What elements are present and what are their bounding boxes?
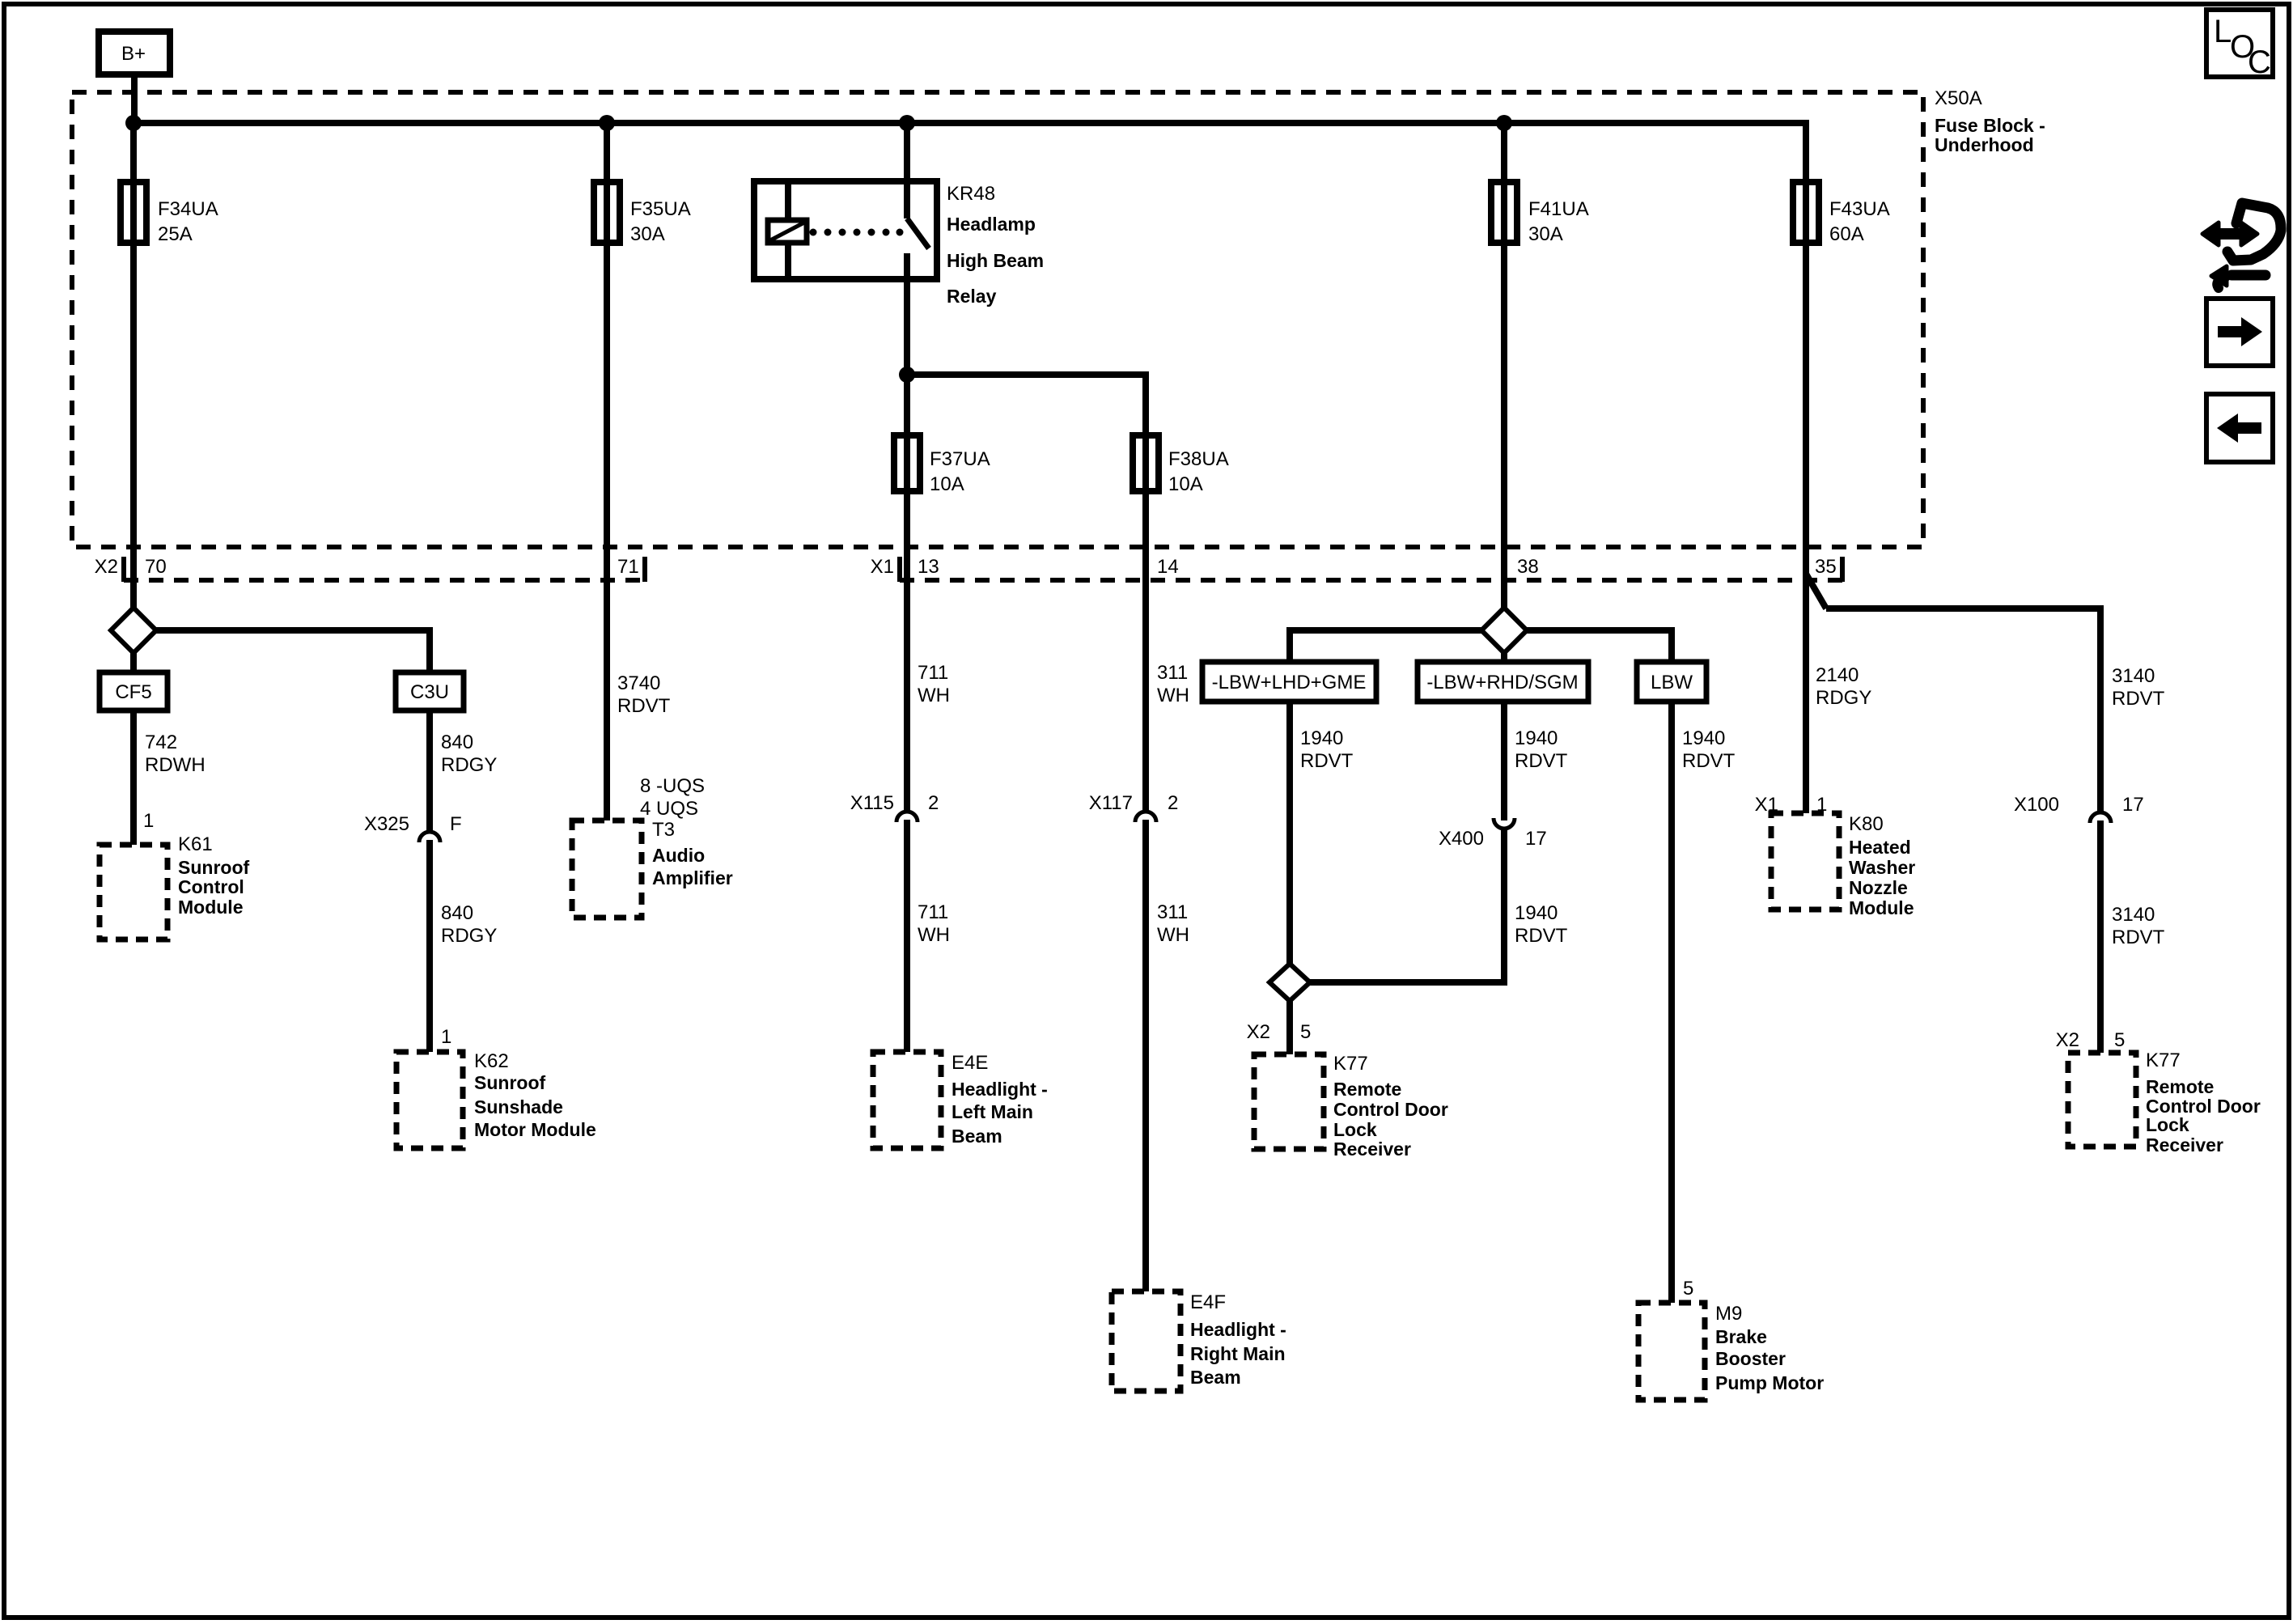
svg-text:Lock: Lock	[1333, 1119, 1377, 1140]
svg-text:5: 5	[1300, 1021, 1311, 1043]
junction dot bus at KR48	[899, 115, 915, 131]
svg-text:60A: 60A	[1829, 223, 1864, 245]
svg-text:X100: X100	[2014, 794, 2059, 816]
svg-text:1940: 1940	[1515, 902, 1558, 924]
splice diamond to K77	[1269, 964, 1310, 1001]
relay KR48 Headlamp High Beam Relay	[754, 181, 1044, 307]
svg-text:C: C	[2248, 45, 2271, 80]
svg-text:X117: X117	[1089, 792, 1133, 814]
svg-text:70: 70	[145, 556, 167, 578]
svg-text:X50A: X50A	[1935, 87, 1982, 109]
node B+ battery feed box	[99, 32, 170, 74]
svg-text:311: 311	[1157, 901, 1188, 923]
wire junction to fuse F37UA	[904, 375, 910, 811]
svg-text:Relay: Relay	[947, 286, 997, 307]
svg-text:K80: K80	[1849, 813, 1884, 835]
svg-text:-LBW+RHD/SGM: -LBW+RHD/SGM	[1426, 672, 1578, 693]
svg-text:Remote: Remote	[1333, 1079, 1401, 1100]
svg-text:Remote: Remote	[2146, 1076, 2214, 1097]
pin X2 5 of right K77	[2056, 1029, 2126, 1051]
svg-text:X2: X2	[2056, 1029, 2079, 1051]
svg-text:Sunroof: Sunroof	[474, 1072, 545, 1093]
svg-text:311: 311	[1157, 662, 1188, 684]
svg-text:Receiver: Receiver	[1333, 1138, 1411, 1160]
svg-text:Heated: Heated	[1849, 837, 1911, 858]
svg-text:RDVT: RDVT	[2112, 926, 2165, 948]
wire X100 to K77 receiver	[2097, 820, 2104, 1053]
module T3 Audio Amplifier	[572, 819, 733, 918]
svg-text:Headlight -: Headlight -	[1190, 1319, 1286, 1340]
junction dot bus at F35UA	[599, 115, 615, 131]
svg-text:Washer: Washer	[1849, 857, 1915, 878]
option box -LBW+RHD/SGM	[1418, 662, 1588, 702]
module K77 Remote Control Door Lock Receiver right	[2068, 1049, 2261, 1155]
svg-text:C3U: C3U	[410, 681, 449, 703]
label circuit 711 WH lower	[918, 901, 950, 946]
svg-text:Control Door: Control Door	[1333, 1099, 1448, 1120]
svg-text:Brake: Brake	[1715, 1326, 1767, 1347]
wire B+ stub	[131, 74, 138, 123]
wire bus to fuse F41UA	[1501, 123, 1507, 609]
connector X400 pin 17	[1439, 818, 1547, 850]
junction dot bus at F41UA	[1496, 115, 1512, 131]
svg-text:WH: WH	[918, 685, 950, 706]
label circuit 3140 RDVT upper	[2112, 665, 2165, 710]
wire bus from B+ across fuse block	[134, 120, 1806, 126]
svg-text:K77: K77	[2146, 1049, 2181, 1071]
svg-text:RDVT: RDVT	[2112, 688, 2165, 710]
label circuit 3140 RDVT lower	[2112, 904, 2165, 948]
svg-text:F35UA: F35UA	[630, 198, 691, 220]
module K77 Remote Control Door Lock Receiver	[1254, 1053, 1448, 1160]
svg-text:711: 711	[918, 662, 948, 684]
option box -LBW+LHD+GME	[1202, 662, 1376, 702]
svg-text:3740: 3740	[617, 672, 660, 694]
svg-text:30A: 30A	[630, 223, 665, 245]
svg-text:Nozzle: Nozzle	[1849, 877, 1908, 898]
svg-text:F38UA: F38UA	[1168, 448, 1229, 470]
svg-text:X325: X325	[364, 813, 409, 835]
fuse F35UA	[594, 182, 691, 245]
svg-text:10A: 10A	[1168, 473, 1203, 495]
label circuit 1940 RDVT SGM branch	[1515, 727, 1568, 772]
pin X2 5 of K77	[1247, 1021, 1312, 1043]
svg-text:F: F	[450, 813, 462, 835]
fuse F41UA	[1491, 182, 1589, 245]
svg-text:1: 1	[441, 1026, 451, 1048]
wire CF5 to K61	[130, 710, 137, 845]
svg-text:RDVT: RDVT	[1515, 925, 1568, 947]
svg-text:30A: 30A	[1528, 223, 1563, 245]
wire bus to fuse F35UA	[604, 123, 610, 820]
svg-text:RDVT: RDVT	[617, 695, 671, 717]
fuse F38UA	[1133, 435, 1229, 495]
label circuit 711 WH upper	[918, 662, 950, 706]
wire splice into RHD/SGM option	[1501, 653, 1507, 662]
svg-text:K77: K77	[1333, 1053, 1368, 1075]
module K80 Heated Washer Nozzle Module	[1771, 813, 1915, 918]
wire relay output down	[904, 279, 910, 375]
svg-text:High Beam: High Beam	[947, 250, 1044, 271]
wire junction to F38UA branch	[907, 375, 1146, 811]
wire C3U to X325	[426, 710, 433, 831]
svg-text:X2: X2	[1247, 1021, 1270, 1043]
svg-text:CF5: CF5	[115, 681, 151, 703]
wire X325 to K62	[426, 840, 433, 1052]
label circuit 1940 RDVT lower	[1515, 902, 1568, 947]
motor M9 Brake Booster Pump Motor	[1638, 1303, 1824, 1400]
svg-text:8 -UQS: 8 -UQS	[640, 775, 705, 797]
svg-text:Right Main: Right Main	[1190, 1343, 1286, 1364]
svg-text:71: 71	[617, 556, 639, 578]
svg-text:Booster: Booster	[1715, 1348, 1786, 1369]
LOC legend box	[2206, 10, 2273, 80]
wire splice to K77	[1286, 1001, 1293, 1054]
wire branch 35 to X100	[1806, 574, 2100, 811]
svg-text:E4E: E4E	[952, 1052, 988, 1074]
fuse block X50A dashed boundary	[72, 92, 1923, 547]
svg-text:RDGY: RDGY	[1816, 687, 1871, 709]
fuse F37UA	[894, 435, 990, 495]
svg-text:840: 840	[441, 731, 473, 753]
label circuit 311 WH lower	[1157, 901, 1189, 946]
pin 8/4 UQS of T3	[640, 775, 705, 820]
fuse F34UA	[121, 182, 218, 245]
wire X400 down to splice	[1310, 829, 1504, 982]
svg-text:Headlight -: Headlight -	[952, 1079, 1048, 1100]
svg-text:5: 5	[2114, 1029, 2125, 1051]
svg-text:WH: WH	[1157, 924, 1189, 946]
label circuit 1940 RDVT LBW branch	[1682, 727, 1736, 772]
module K61 Sunroof Control Module	[100, 833, 249, 939]
wire splice to LHD/GME option	[1290, 630, 1481, 662]
svg-text:B+: B+	[121, 43, 146, 65]
svg-text:X400: X400	[1439, 828, 1484, 850]
svg-text:Lock: Lock	[2146, 1114, 2189, 1135]
svg-text:X1: X1	[871, 556, 894, 578]
svg-text:KR48: KR48	[947, 183, 995, 205]
label circuit 3740 RDVT	[617, 672, 671, 717]
svg-text:Control: Control	[178, 876, 244, 897]
label circuit 840 RDGY lower	[441, 902, 497, 947]
wire splice to C3U	[156, 630, 430, 672]
wire LHD/GME to splice diamond	[1286, 702, 1293, 964]
svg-text:K62: K62	[474, 1050, 509, 1072]
label circuit 840 RDGY upper	[441, 731, 497, 776]
option box CF5	[100, 672, 167, 710]
svg-text:X2: X2	[95, 556, 118, 578]
svg-text:M9: M9	[1715, 1303, 1742, 1325]
svg-text:Beam: Beam	[952, 1126, 1002, 1147]
svg-text:-LBW+LHD+GME: -LBW+LHD+GME	[1212, 672, 1367, 693]
svg-text:Module: Module	[178, 897, 244, 918]
label circuit 311 WH upper	[1157, 662, 1189, 706]
connector X325 pin F	[364, 813, 462, 842]
label circuit 1940 RDVT GME branch	[1300, 727, 1354, 772]
svg-text:Receiver: Receiver	[2146, 1134, 2223, 1155]
svg-text:35: 35	[1815, 556, 1837, 578]
svg-text:14: 14	[1157, 556, 1179, 578]
svg-text:Sunshade: Sunshade	[474, 1096, 563, 1117]
connector boundary dashed line X1	[900, 557, 1842, 582]
svg-text:25A: 25A	[158, 223, 193, 245]
splice diamond on circuit 742	[111, 608, 156, 653]
junction dot bus at F34UA	[125, 115, 142, 131]
module E4E Headlight Left Main Beam	[873, 1052, 1048, 1148]
module K62 Sunroof Sunshade Motor Module	[396, 1050, 596, 1148]
connector X117 pin 2	[1089, 792, 1179, 822]
svg-text:RDVT: RDVT	[1515, 750, 1568, 772]
svg-text:RDGY: RDGY	[441, 754, 497, 776]
svg-text:RDWH: RDWH	[145, 754, 206, 776]
svg-text:13: 13	[918, 556, 939, 578]
connector X115 pin 2	[850, 792, 939, 822]
svg-text:LBW: LBW	[1651, 672, 1693, 693]
option box C3U	[396, 672, 464, 710]
svg-text:17: 17	[2122, 794, 2144, 816]
wire bus into relay KR48	[904, 123, 910, 218]
svg-text:Module: Module	[1849, 897, 1914, 918]
wire X117 to E4F	[1142, 820, 1149, 1291]
svg-text:E4F: E4F	[1190, 1291, 1226, 1313]
connector boundary dashed line X2	[124, 557, 645, 582]
svg-text:T3: T3	[652, 819, 675, 841]
svg-text:5: 5	[1683, 1278, 1693, 1300]
junction dot below relay	[899, 367, 915, 383]
svg-text:WH: WH	[1157, 685, 1189, 706]
svg-text:4 UQS: 4 UQS	[640, 798, 698, 820]
svg-text:RDVT: RDVT	[1682, 750, 1736, 772]
wire bus corner to fuse F43UA	[1803, 123, 1806, 813]
icon arrow right box	[2206, 299, 2273, 366]
svg-text:L: L	[2214, 14, 2232, 49]
wire splice to CF5	[130, 653, 137, 672]
svg-text:10A: 10A	[930, 473, 964, 495]
fuse F43UA	[1793, 182, 1890, 245]
label circuit 742 RDWH	[145, 731, 206, 776]
svg-text:742: 742	[145, 731, 177, 753]
svg-text:1940: 1940	[1682, 727, 1725, 749]
svg-text:1: 1	[143, 810, 154, 832]
svg-text:Fuse Block -: Fuse Block -	[1935, 115, 2045, 136]
node X50A fuse block label	[1935, 87, 2045, 155]
svg-text:Motor Module: Motor Module	[474, 1119, 596, 1140]
svg-text:Underhood: Underhood	[1935, 134, 2034, 155]
svg-text:Amplifier: Amplifier	[652, 867, 733, 888]
svg-text:17: 17	[1525, 828, 1547, 850]
svg-text:Pump Motor: Pump Motor	[1715, 1372, 1824, 1393]
svg-text:RDVT: RDVT	[1300, 750, 1354, 772]
svg-text:Sunroof: Sunroof	[178, 857, 249, 878]
svg-text:2140: 2140	[1816, 664, 1859, 686]
svg-text:Audio: Audio	[652, 845, 705, 866]
svg-text:K61: K61	[178, 833, 213, 855]
svg-text:1940: 1940	[1300, 727, 1343, 749]
svg-text:RDGY: RDGY	[441, 925, 497, 947]
splice diamond on circuit 1940	[1481, 608, 1527, 653]
svg-text:711: 711	[918, 901, 948, 923]
label circuit 2140 RDGY	[1816, 664, 1871, 709]
wire RHD/SGM to X400	[1501, 702, 1507, 820]
svg-text:F37UA: F37UA	[930, 448, 990, 470]
wire bus to fuse F34UA	[130, 123, 137, 609]
wire LBW to M9	[1668, 702, 1675, 1303]
connector X100 pin 17	[2014, 794, 2144, 823]
option box LBW	[1637, 662, 1706, 702]
pin X1 1 of K80	[1755, 794, 1828, 816]
svg-text:Left Main: Left Main	[952, 1101, 1033, 1122]
svg-text:3140: 3140	[2112, 904, 2155, 926]
svg-text:38: 38	[1517, 556, 1539, 578]
svg-text:Headlamp: Headlamp	[947, 214, 1036, 235]
icon arrow left box	[2206, 394, 2273, 462]
svg-text:F34UA: F34UA	[158, 198, 218, 220]
svg-text:3140: 3140	[2112, 665, 2155, 687]
wire splice to LBW option	[1527, 630, 1672, 662]
svg-text:2: 2	[928, 792, 939, 814]
module E4F Headlight Right Main Beam	[1112, 1291, 1286, 1391]
svg-text:F41UA: F41UA	[1528, 198, 1589, 220]
svg-text:Beam: Beam	[1190, 1367, 1241, 1388]
svg-text:1940: 1940	[1515, 727, 1558, 749]
wire X115 to E4E	[904, 820, 910, 1052]
svg-text:X115: X115	[850, 792, 894, 814]
svg-text:F43UA: F43UA	[1829, 198, 1890, 220]
svg-text:2: 2	[1168, 792, 1178, 814]
svg-text:WH: WH	[918, 924, 950, 946]
svg-text:840: 840	[441, 902, 473, 924]
icon twisted-route scribble	[2202, 203, 2281, 288]
